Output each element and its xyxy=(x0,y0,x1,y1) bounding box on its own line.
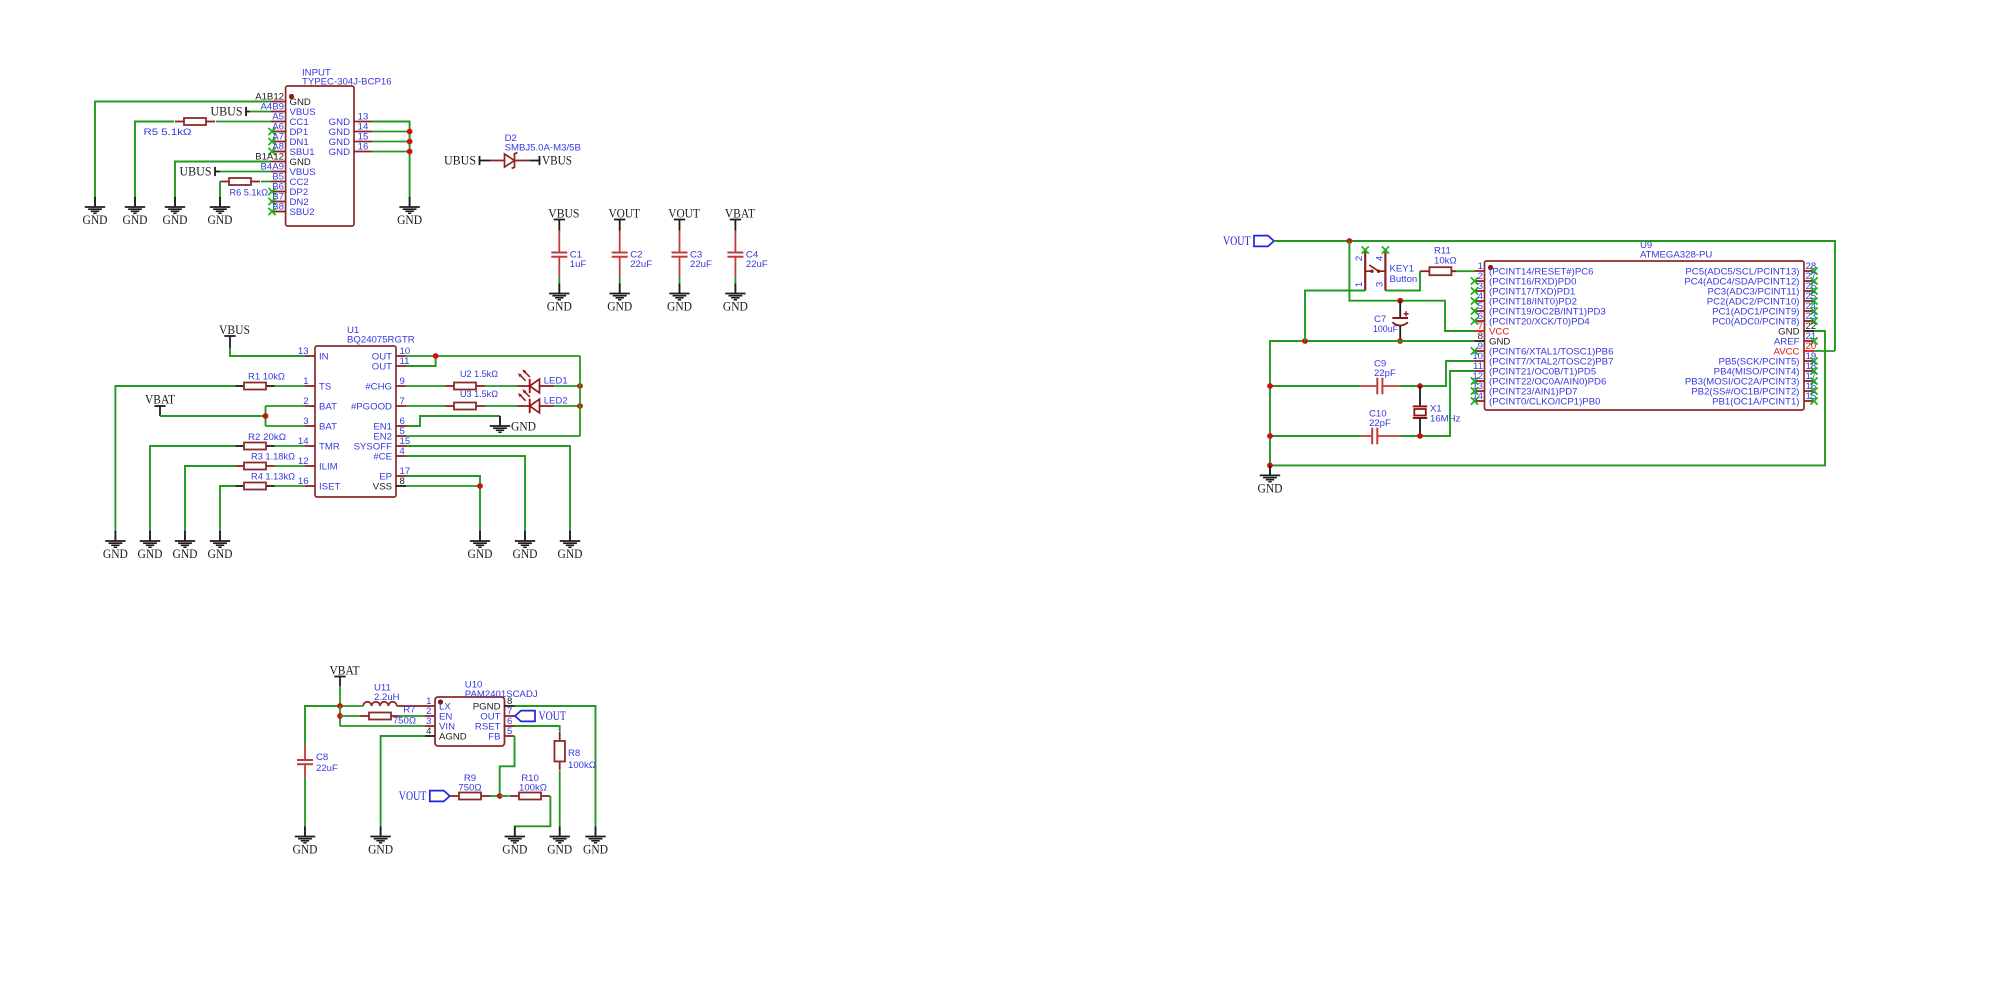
svg-text:4: 4 xyxy=(426,726,432,737)
svg-text:ILIM: ILIM xyxy=(319,461,338,472)
pin 9 #CHG of U1 xyxy=(365,376,406,392)
svg-text:VBAT: VBAT xyxy=(145,393,175,407)
junction ground node xyxy=(1267,463,1273,469)
junction at pin16 bus xyxy=(407,149,413,155)
wire #CE to ground xyxy=(406,456,525,532)
pin 8 VSS of U1 xyxy=(373,476,406,492)
pin 27 PC4(ADC4/SDA/PCINT12) of U9 xyxy=(1684,271,1817,287)
wire SYSOFF to ground xyxy=(406,446,570,532)
svg-text:10kΩ: 10kΩ xyxy=(1434,256,1457,267)
svg-text:SBU2: SBU2 xyxy=(290,207,315,218)
LED LED1 xyxy=(517,369,568,393)
pin B5 CC2 of INPUT connector xyxy=(271,172,309,188)
resistor R11 10k xyxy=(1420,246,1475,276)
net flag VBUS at C1 xyxy=(548,206,579,230)
svg-text:22uF: 22uF xyxy=(690,259,712,270)
wire CC2 to R6 xyxy=(261,181,271,183)
IC U9 ATMEGA328-PU body xyxy=(1485,240,1805,410)
svg-text:GND: GND xyxy=(502,843,527,857)
junction at pin14 bus xyxy=(407,129,413,135)
svg-text:GND: GND xyxy=(123,213,148,227)
pin 17 PB3(MOSI/OC2A/PCINT3) of U9 xyxy=(1685,371,1818,387)
svg-text:BAT: BAT xyxy=(319,421,337,432)
svg-text:VBUS: VBUS xyxy=(548,206,579,220)
capacitor C1 1uF xyxy=(551,250,586,277)
svg-text:TYPEC-304J-BCP16: TYPEC-304J-BCP16 xyxy=(302,77,392,88)
wire R4 to ISET pin 16 xyxy=(275,485,306,487)
junction LX node xyxy=(337,703,343,709)
wire OUT pin11 join xyxy=(406,356,436,366)
svg-text:VOUT: VOUT xyxy=(399,788,427,803)
svg-text:TS: TS xyxy=(319,381,331,392)
net flag VBAT at U1 xyxy=(145,393,175,417)
svg-text:22pF: 22pF xyxy=(1374,368,1396,379)
resistor R7 750 on EN xyxy=(340,705,425,727)
pin 11 (PCINT21/OC0B/T1)PD5 of U9 xyxy=(1473,361,1596,377)
wire VBAT down to LX node xyxy=(339,686,341,706)
pin 2 (PCINT16/RXD)PD0 of U9 xyxy=(1471,271,1577,287)
pin 22 GND of U9 xyxy=(1778,321,1816,337)
inductor U11 2.2uH xyxy=(363,683,425,707)
svg-text:AGND: AGND xyxy=(439,731,467,742)
net flag UBUS at A4B9 xyxy=(211,104,251,118)
ground G1 xyxy=(83,197,108,227)
svg-text:ISET: ISET xyxy=(319,481,340,492)
wire R1 to TS pin 1 xyxy=(275,385,306,387)
svg-text:(PCINT0/CLKO/ICP1)PB0: (PCINT0/CLKO/ICP1)PB0 xyxy=(1489,396,1600,407)
pin B7 DN2 of INPUT connector xyxy=(268,192,308,208)
pin 1 (PCINT14/RESET#)PC6 of U9 xyxy=(1475,261,1594,277)
svg-text:GND: GND xyxy=(329,147,350,158)
ground G4 xyxy=(208,197,233,227)
capacitor C7 100uF polarized xyxy=(1373,301,1409,341)
svg-text:#CHG: #CHG xyxy=(365,381,392,392)
pin 13 IN of U1 xyxy=(298,346,329,362)
pin 16 PB2(SS#/OC1B/PCINT2) of U9 xyxy=(1691,381,1817,397)
svg-text:GND: GND xyxy=(208,547,233,561)
ground G8 xyxy=(173,531,198,561)
wire C4 to ground xyxy=(734,277,736,285)
svg-text:9: 9 xyxy=(400,376,405,387)
svg-text:GND: GND xyxy=(607,300,632,314)
svg-text:GND: GND xyxy=(293,843,318,857)
svg-text:GND: GND xyxy=(667,300,692,314)
pin A5 CC1 of INPUT connector xyxy=(271,112,309,128)
pin 7 VCC of U9 xyxy=(1475,321,1510,337)
capacitor C3 22uF xyxy=(672,250,713,277)
ground G6 xyxy=(103,531,128,561)
wire R1 to ground rail xyxy=(115,386,235,532)
net flag VBUS above U1 xyxy=(219,323,250,348)
wire C10 line xyxy=(1270,435,1361,437)
pin 14 TMR of U1 xyxy=(298,436,340,452)
svg-text:SMBJ5.0A-M3/5B: SMBJ5.0A-M3/5B xyxy=(505,143,581,154)
pin 3 (PCINT17/TXD)PD1 of U9 xyxy=(1471,281,1575,297)
pin 9 (PCINT6/XTAL1/TOSC1)PB6 of U9 xyxy=(1471,341,1614,357)
svg-text:OUT: OUT xyxy=(372,361,392,372)
svg-text:R1 10kΩ: R1 10kΩ xyxy=(248,372,285,383)
pin 5 (PCINT19/OC2B/INT1)PD3 of U9 xyxy=(1471,301,1606,317)
resistor R3 1.18k on ILIM xyxy=(235,452,295,470)
resistor R10 100k xyxy=(510,773,550,800)
wire CC1 to R5 xyxy=(216,121,271,123)
pin 14 (PCINT0/CLKO/ICP1)PB0 of U9 xyxy=(1471,391,1601,407)
pin 10 (PCINT7/XTAL2/TOSC2)PB7 of U9 xyxy=(1472,351,1613,367)
resistor R9 750 xyxy=(450,773,490,800)
wire C3 to ground xyxy=(679,277,681,285)
svg-text:VSS: VSS xyxy=(373,481,392,492)
pin A6 DP1 of INPUT connector xyxy=(268,122,308,138)
pushbutton KEY1 xyxy=(1354,246,1417,290)
wire UBUS to VBUS pin A4B9 xyxy=(250,111,271,113)
wire R5 to ground G2 xyxy=(135,122,174,199)
capacitor C10 22pF xyxy=(1361,409,1400,445)
net flag VOUT at C2 xyxy=(608,206,640,230)
svg-text:IN: IN xyxy=(319,351,329,362)
junction C10 left xyxy=(1267,433,1273,439)
svg-text:GND: GND xyxy=(547,843,572,857)
wire AVCC pin 20 xyxy=(1814,350,1835,352)
pin 18 PB4(MISO/PCINT4) of U9 xyxy=(1714,361,1818,377)
junction C9 left xyxy=(1267,383,1273,389)
pin 15 PB1(OC1A/PCINT1) of U9 xyxy=(1712,391,1818,407)
ground G10 xyxy=(558,531,583,561)
svg-text:1: 1 xyxy=(1354,282,1365,287)
pin 5 EN2 of U1 xyxy=(373,426,406,442)
pin 17 EP of U1 xyxy=(379,466,410,482)
connector INPUT TYPEC-304J-BCP16 body xyxy=(286,68,392,227)
capacitor C8 22uF xyxy=(297,745,338,778)
pin 26 PC3(ADC3/PCINT11) of U9 xyxy=(1707,281,1817,297)
wire R9 to junction xyxy=(490,795,500,797)
wire A1B12 GND to ground xyxy=(95,102,271,199)
svg-text:#PGOOD: #PGOOD xyxy=(351,401,392,412)
svg-text:GND: GND xyxy=(511,420,536,434)
ground G11 xyxy=(513,531,538,561)
net flag VBUS at D2 xyxy=(530,153,572,167)
junction LED2 rail xyxy=(577,403,583,409)
svg-text:BAT: BAT xyxy=(319,401,337,412)
svg-text:VOUT: VOUT xyxy=(668,206,700,220)
pin B1A12 GND of INPUT connector xyxy=(255,152,311,168)
pin 4 (PCINT18/INT0)PD2 of U9 xyxy=(1471,291,1577,307)
wire R6 to ground G4 xyxy=(219,182,221,199)
svg-text:750Ω: 750Ω xyxy=(458,783,481,794)
svg-text:VBUS: VBUS xyxy=(219,323,250,337)
svg-text:TMR: TMR xyxy=(319,441,340,452)
pin 16 GND of INPUT connector xyxy=(329,142,372,158)
pin A4B9 VBUS of INPUT connector xyxy=(261,102,316,118)
wire button bottom branch xyxy=(1305,291,1365,342)
svg-text:VOUT: VOUT xyxy=(539,708,567,723)
crystal X1 16MHz xyxy=(1413,386,1461,436)
wire VSS join EP xyxy=(406,485,480,487)
svg-text:22uF: 22uF xyxy=(630,259,652,270)
svg-text:LED1: LED1 xyxy=(544,376,568,387)
wire C9 line xyxy=(1270,385,1360,387)
pin 21 AREF of U9 xyxy=(1774,331,1818,347)
wire EN1 to ground flag xyxy=(406,416,500,426)
ground under C4 xyxy=(723,284,748,314)
junction C7 bottom on GND line xyxy=(1397,338,1403,344)
pin 7 #PGOOD of U1 xyxy=(351,396,406,412)
svg-text:LED2: LED2 xyxy=(544,396,568,407)
junction OUT pins xyxy=(433,353,439,359)
wire R2 to ground G7 xyxy=(150,446,236,532)
pin 16 ISET of U1 xyxy=(298,476,341,492)
wire R3 to ground G8 xyxy=(185,466,236,532)
pin 20 AVCC of U9 xyxy=(1774,341,1817,357)
wire LX node to inductor xyxy=(340,705,363,707)
pin 6 EN1 of U1 xyxy=(373,416,406,432)
svg-text:16: 16 xyxy=(358,142,369,153)
svg-text:5: 5 xyxy=(507,726,512,737)
junction VBAT node xyxy=(263,413,269,419)
svg-text:UBUS: UBUS xyxy=(180,164,212,178)
resistor R2 20k on TMR xyxy=(235,432,286,450)
ground G12 xyxy=(468,531,493,561)
svg-text:GND: GND xyxy=(208,213,233,227)
svg-text:VBAT: VBAT xyxy=(330,663,360,677)
junction EP VSS xyxy=(477,483,483,489)
resistor U3 1.5k xyxy=(445,389,498,410)
svg-text:22pF: 22pF xyxy=(1369,418,1391,429)
junction EN node xyxy=(337,713,343,719)
svg-text:GND: GND xyxy=(138,547,163,561)
net flag UBUS at B4A9 xyxy=(180,164,221,178)
svg-text:GND: GND xyxy=(558,547,583,561)
svg-text:2.2uH: 2.2uH xyxy=(374,692,400,703)
ground G5 xyxy=(397,197,422,227)
pin 10 OUT of U1 xyxy=(372,346,410,362)
pin 7 OUT of U10 xyxy=(480,706,514,722)
pin 11 OUT of U1 xyxy=(372,356,410,372)
wire VOUT top rail xyxy=(1274,241,1835,351)
LED LED2 xyxy=(517,389,568,413)
svg-text:R7: R7 xyxy=(403,705,415,716)
svg-text:B8: B8 xyxy=(272,202,284,213)
pin A1B12 GND of INPUT connector xyxy=(255,92,311,108)
junction LED1 rail xyxy=(577,383,583,389)
junction button branch xyxy=(1302,338,1308,344)
wire EN2 to LED rail xyxy=(406,435,580,437)
svg-text:ATMEGA328-PU: ATMEGA328-PU xyxy=(1640,250,1712,261)
pin 15 SYSOFF of U1 xyxy=(354,436,411,452)
net flag VOUT at C3 xyxy=(668,206,700,230)
IC U1 BQ24075RGTR body xyxy=(315,325,415,497)
pin 3 BAT of U1 xyxy=(303,416,337,432)
net flag VBAT at C4 xyxy=(725,206,755,230)
svg-text:GND: GND xyxy=(103,547,128,561)
svg-text:R6 5.1kΩ: R6 5.1kΩ xyxy=(230,188,269,199)
svg-text:2: 2 xyxy=(1354,256,1365,261)
pin 4 AGND of U10 xyxy=(425,726,467,742)
wire U3 to LED2 xyxy=(485,405,517,407)
svg-text:100kΩ: 100kΩ xyxy=(519,783,547,794)
junction at pin15 bus xyxy=(407,139,413,145)
pin 6 (PCINT20/XCK/T0)PD4 of U9 xyxy=(1471,311,1591,327)
pin 1 LX of U10 xyxy=(425,696,451,712)
svg-text:8: 8 xyxy=(400,476,405,487)
svg-text:R3 1.18kΩ: R3 1.18kΩ xyxy=(251,452,295,463)
svg-text:22uF: 22uF xyxy=(316,763,338,774)
wire R4 to ground G9 xyxy=(220,486,236,532)
svg-text:GND: GND xyxy=(173,547,198,561)
pin 25 PC2(ADC2/PCINT10) of U9 xyxy=(1707,291,1818,307)
resistor R4 1.13k on ISET xyxy=(235,472,295,490)
wire RSET to R8 xyxy=(515,726,560,732)
wire C2 to ground xyxy=(619,277,621,285)
IC U10 PAM2401SCADJ body xyxy=(435,680,538,747)
resistor R5 5.1k on CC1 xyxy=(144,118,216,138)
pin 19 PB5(SCK/PCINT5) of U9 xyxy=(1718,351,1817,367)
wire R10 to ground xyxy=(515,796,551,827)
pin B6 DP2 of INPUT connector xyxy=(268,182,308,198)
wire R2 to TMR pin 14 xyxy=(275,445,306,447)
svg-text:22uF: 22uF xyxy=(746,259,768,270)
svg-text:U2 1.5kΩ: U2 1.5kΩ xyxy=(460,369,498,380)
svg-text:GND: GND xyxy=(368,843,393,857)
wire VBAT to C4 xyxy=(734,231,736,253)
svg-text:VBAT: VBAT xyxy=(725,206,755,220)
wire FB to divider xyxy=(500,736,515,796)
pin 5 FB of U10 xyxy=(488,726,514,742)
pin 28 PC5(ADC5/SCL/PCINT13) of U9 xyxy=(1685,261,1817,277)
wire #PGOOD to U3 xyxy=(406,405,445,407)
svg-text:GND: GND xyxy=(513,547,538,561)
wire R8 to ground xyxy=(559,771,561,827)
wire R3 to ILIM pin 12 xyxy=(275,465,306,467)
ground G16 xyxy=(547,827,572,857)
wire VCC branch xyxy=(1349,241,1474,331)
svg-text:4: 4 xyxy=(400,446,406,457)
wire OUT pin10 to LED rail xyxy=(406,355,580,357)
ground flag at EN1 xyxy=(490,416,536,434)
ground G17 xyxy=(502,827,527,857)
junction crystal top xyxy=(1417,383,1423,389)
pin 3 VIN of U10 xyxy=(425,716,455,732)
ground under C2 xyxy=(607,284,632,314)
svg-text:100kΩ: 100kΩ xyxy=(568,760,596,771)
wire VOUT to C2 xyxy=(619,231,621,253)
junction C7 top xyxy=(1397,298,1403,304)
capacitor C2 22uF xyxy=(612,250,653,277)
capacitor C4 22uF xyxy=(727,250,768,277)
wire junction to R10 xyxy=(500,795,510,797)
wire LED1 to rail xyxy=(554,385,580,387)
vertical wire LX to EN to VIN xyxy=(339,706,341,726)
ground G15 xyxy=(583,827,608,857)
pin 12 (PCINT22/OC0A/AIN0)PD6 of U9 xyxy=(1471,371,1606,387)
wire VBAT to BAT pins xyxy=(160,406,305,426)
svg-text:FB: FB xyxy=(488,731,500,742)
wire UBUS to VBUS pin B4A9 xyxy=(220,171,271,173)
wire C10 to crystal and pin 11 xyxy=(1400,371,1475,436)
pin 4 #CE of U1 xyxy=(373,446,406,462)
svg-text:VOUT: VOUT xyxy=(608,206,640,220)
ground under C1 xyxy=(547,284,572,314)
resistor R1 10k on TS xyxy=(235,372,285,390)
wire VOUT to C3 xyxy=(679,231,681,253)
wire B1A12 GND to ground xyxy=(175,162,271,199)
wire LED2 to rail xyxy=(554,405,580,407)
svg-text:R5 5.1kΩ: R5 5.1kΩ xyxy=(144,127,192,138)
svg-text:R2 20kΩ: R2 20kΩ xyxy=(248,432,286,443)
svg-text:750Ω: 750Ω xyxy=(393,716,416,727)
svg-text:4: 4 xyxy=(1374,255,1385,261)
ground G9 xyxy=(208,531,233,561)
svg-text:VOUT: VOUT xyxy=(1223,233,1251,248)
pin 6 RSET of U10 xyxy=(475,716,515,732)
ground under C3 xyxy=(667,284,692,314)
net flag UBUS at D2 xyxy=(444,153,490,167)
svg-text:R4 1.13kΩ: R4 1.13kΩ xyxy=(251,472,295,483)
diode D2 SMBJ5.0A-M3/5B xyxy=(490,133,581,168)
svg-text:16MHz: 16MHz xyxy=(1430,414,1461,425)
wire PGND to ground xyxy=(515,706,596,827)
svg-text:KEY1: KEY1 xyxy=(1390,264,1415,275)
pin 1 TS of U1 xyxy=(303,376,331,392)
wire U2 to LED1 xyxy=(485,385,517,387)
svg-text:PB1(OC1A/PCINT1): PB1(OC1A/PCINT1) xyxy=(1712,396,1799,407)
svg-text:GND: GND xyxy=(397,213,422,227)
svg-text:GND: GND xyxy=(547,300,572,314)
pin 13 GND of INPUT connector xyxy=(329,112,372,128)
svg-text:UBUS: UBUS xyxy=(211,104,243,118)
pin A8 SBU1 of INPUT connector xyxy=(268,142,314,158)
pin 8 PGND of U10 xyxy=(473,696,515,712)
svg-text:GND: GND xyxy=(163,213,188,227)
pin 24 PC1(ADC1/PCINT9) of U9 xyxy=(1712,301,1818,317)
svg-text:UBUS: UBUS xyxy=(444,153,476,167)
wire GND pin 8 line xyxy=(1270,341,1475,465)
wire #CHG to U2 xyxy=(406,385,445,387)
wire C8 to ground xyxy=(304,778,306,827)
pin B8 SBU2 of INPUT connector xyxy=(268,202,314,218)
wire LX node to C8 xyxy=(305,706,340,745)
wire GND pin 22 long route xyxy=(1270,331,1825,465)
ground G2 xyxy=(123,197,148,227)
ground G3 xyxy=(163,197,188,227)
resistor R6 5.1k on CC2 xyxy=(220,178,268,199)
resistor U2 1.5k xyxy=(445,369,498,390)
junction VOUT rail to VCC branch xyxy=(1347,238,1353,244)
ground G13 xyxy=(293,827,318,857)
svg-text:C8: C8 xyxy=(316,752,328,763)
junction FB divider xyxy=(497,793,503,799)
svg-text:100uF: 100uF xyxy=(1373,324,1398,335)
net port VOUT at U9 xyxy=(1223,233,1274,248)
svg-text:R8: R8 xyxy=(568,748,580,759)
net port VOUT at OUT pin xyxy=(515,708,566,723)
pin 13 (PCINT23/AIN1)PD7 of U9 xyxy=(1471,381,1578,397)
pin 2 BAT of U1 xyxy=(303,396,337,412)
svg-text:#CE: #CE xyxy=(373,451,392,462)
svg-text:GND: GND xyxy=(83,213,108,227)
svg-text:3: 3 xyxy=(1374,282,1385,287)
capacitor C9 22pF xyxy=(1360,359,1400,395)
svg-text:Button: Button xyxy=(1390,274,1418,285)
svg-text:GND: GND xyxy=(1258,481,1283,495)
pin 15 GND of INPUT connector xyxy=(329,132,372,148)
pin 14 GND of INPUT connector xyxy=(329,122,372,138)
svg-text:7: 7 xyxy=(400,396,405,407)
svg-text:GND: GND xyxy=(583,843,608,857)
svg-text:1uF: 1uF xyxy=(570,259,587,270)
svg-text:BQ24075RGTR: BQ24075RGTR xyxy=(347,335,415,346)
pin B4A9 VBUS of INPUT connector xyxy=(261,162,316,178)
pin 8 GND of U9 xyxy=(1475,331,1511,347)
